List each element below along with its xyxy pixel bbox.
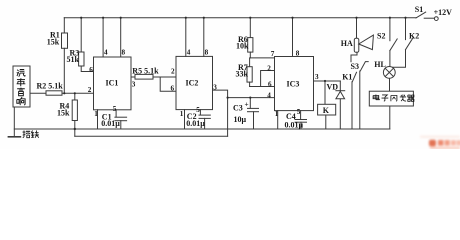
wire IC3 pin1 xyxy=(277,111,279,129)
relay contact K1 xyxy=(352,72,356,82)
svg-text:S2: S2 xyxy=(377,32,385,41)
wire IC3 pin8 xyxy=(292,18,294,57)
svg-text:15k: 15k xyxy=(57,108,70,117)
svg-text:5: 5 xyxy=(196,106,200,114)
svg-text:0.01μ: 0.01μ xyxy=(285,120,304,129)
wire IC2 pin4 xyxy=(185,18,187,57)
text 车 xyxy=(17,78,26,86)
wire IC3 pin6/2 loop xyxy=(250,86,275,88)
svg-text:8: 8 xyxy=(205,48,209,56)
svg-text:K: K xyxy=(323,106,330,115)
svg-text:1: 1 xyxy=(94,110,98,118)
svg-text:10k: 10k xyxy=(236,42,249,51)
svg-text:2: 2 xyxy=(171,67,175,75)
wire IC2 pin1 xyxy=(184,110,186,129)
capacitor C2 xyxy=(199,110,201,115)
svg-text:4: 4 xyxy=(104,48,108,56)
svg-text:IC3: IC3 xyxy=(287,79,300,88)
svg-text:HA: HA xyxy=(341,39,353,48)
svg-text:IC2: IC2 xyxy=(186,78,199,87)
watermark xyxy=(420,136,460,150)
svg-text:6: 6 xyxy=(268,80,272,88)
wire IC3 pin7 xyxy=(250,57,274,59)
node wire R2/R1/R4 to pin2 xyxy=(30,92,46,94)
switch S2 xyxy=(389,18,391,41)
svg-text:5: 5 xyxy=(113,105,117,113)
text 铁 xyxy=(31,131,39,138)
wire ground bus line A xyxy=(14,128,390,130)
wire top +12V rail xyxy=(64,17,416,19)
wire IC1 pin8 xyxy=(120,18,122,57)
audio source box xyxy=(13,66,30,107)
CJK hand-drawn glyphs xyxy=(17,69,414,137)
svg-text:4: 4 xyxy=(187,48,191,56)
text 响 xyxy=(17,97,25,105)
switch S3 xyxy=(360,62,368,71)
svg-text:3: 3 xyxy=(132,80,136,88)
svg-text:VD: VD xyxy=(327,82,339,91)
svg-text:S3: S3 xyxy=(351,62,359,71)
svg-text:10μ: 10μ xyxy=(234,115,247,124)
svg-text:8: 8 xyxy=(122,48,126,56)
svg-text:4: 4 xyxy=(267,92,271,100)
capacitor C1 xyxy=(115,110,117,117)
text 搭 xyxy=(23,131,31,138)
svg-text:R2 5.1k: R2 5.1k xyxy=(37,82,64,91)
svg-text:IC1: IC1 xyxy=(106,78,119,87)
text 电子闪光器 (flasher box) xyxy=(373,95,379,100)
wire IC2 pin8 xyxy=(203,18,205,57)
flasher box xyxy=(369,91,413,106)
svg-text:+12V: +12V xyxy=(434,8,453,17)
svg-text:K2: K2 xyxy=(409,32,419,41)
diode VD xyxy=(339,81,341,129)
resistor R6 xyxy=(249,18,251,38)
svg-text:+: + xyxy=(245,100,249,108)
svg-text:2: 2 xyxy=(267,64,271,72)
svg-text:2: 2 xyxy=(88,86,92,94)
resistor R4 xyxy=(74,93,76,100)
svg-text:51k: 51k xyxy=(67,55,80,64)
text 汽 (in box) xyxy=(17,69,25,76)
svg-text:1: 1 xyxy=(180,110,184,118)
resistor R5 xyxy=(131,76,135,78)
op-amp U1 : IC1 555 box xyxy=(94,57,132,110)
svg-text:6: 6 xyxy=(171,84,175,92)
svg-text:8: 8 xyxy=(296,50,300,58)
resistor R7 xyxy=(249,58,251,67)
resistor R2 xyxy=(46,91,62,95)
svg-text:1: 1 xyxy=(275,110,279,118)
capacitor C4 xyxy=(300,111,302,120)
resistor R3 xyxy=(80,18,82,52)
svg-text:15k: 15k xyxy=(47,38,60,47)
svg-text:0.01μ: 0.01μ xyxy=(186,119,205,128)
text 音 xyxy=(17,88,25,96)
svg-text:0.01μ: 0.01μ xyxy=(101,119,120,128)
wire pin3 to IC3 pin4 xyxy=(228,97,275,99)
svg-text:3: 3 xyxy=(213,83,217,91)
wire ground bus line B xyxy=(75,135,228,137)
relay contact K2 xyxy=(405,18,407,40)
buzzer HA xyxy=(356,18,358,39)
wire IC3 pin3 out xyxy=(314,80,341,82)
svg-text:S1: S1 xyxy=(415,5,423,14)
svg-text:3: 3 xyxy=(315,73,319,81)
svg-text:K1: K1 xyxy=(342,73,352,82)
svg-text:5: 5 xyxy=(297,108,301,116)
svg-text:R5 5.1k: R5 5.1k xyxy=(132,66,159,75)
wire IC2 pin3 out xyxy=(213,90,228,136)
svg-text:33k: 33k xyxy=(236,70,249,79)
svg-text:6: 6 xyxy=(89,66,93,74)
relay coil K xyxy=(324,81,326,104)
capacitor C3 electrolytic xyxy=(249,98,251,109)
svg-text:7: 7 xyxy=(271,50,275,58)
svg-text:HL: HL xyxy=(374,60,386,69)
switch S1 xyxy=(416,12,426,18)
wire IC1 pin1 xyxy=(97,110,99,129)
lamp HL xyxy=(383,67,395,79)
op-amp U3 : IC3 555 box xyxy=(275,57,314,111)
resistor R1 xyxy=(63,18,65,33)
op-amp U2 : IC2 555 box xyxy=(176,56,213,109)
ground xyxy=(13,107,15,137)
wire IC1 pin4 xyxy=(102,18,104,57)
svg-text:C3: C3 xyxy=(233,103,243,112)
wire IC2 pin2/6 loop xyxy=(160,77,176,91)
